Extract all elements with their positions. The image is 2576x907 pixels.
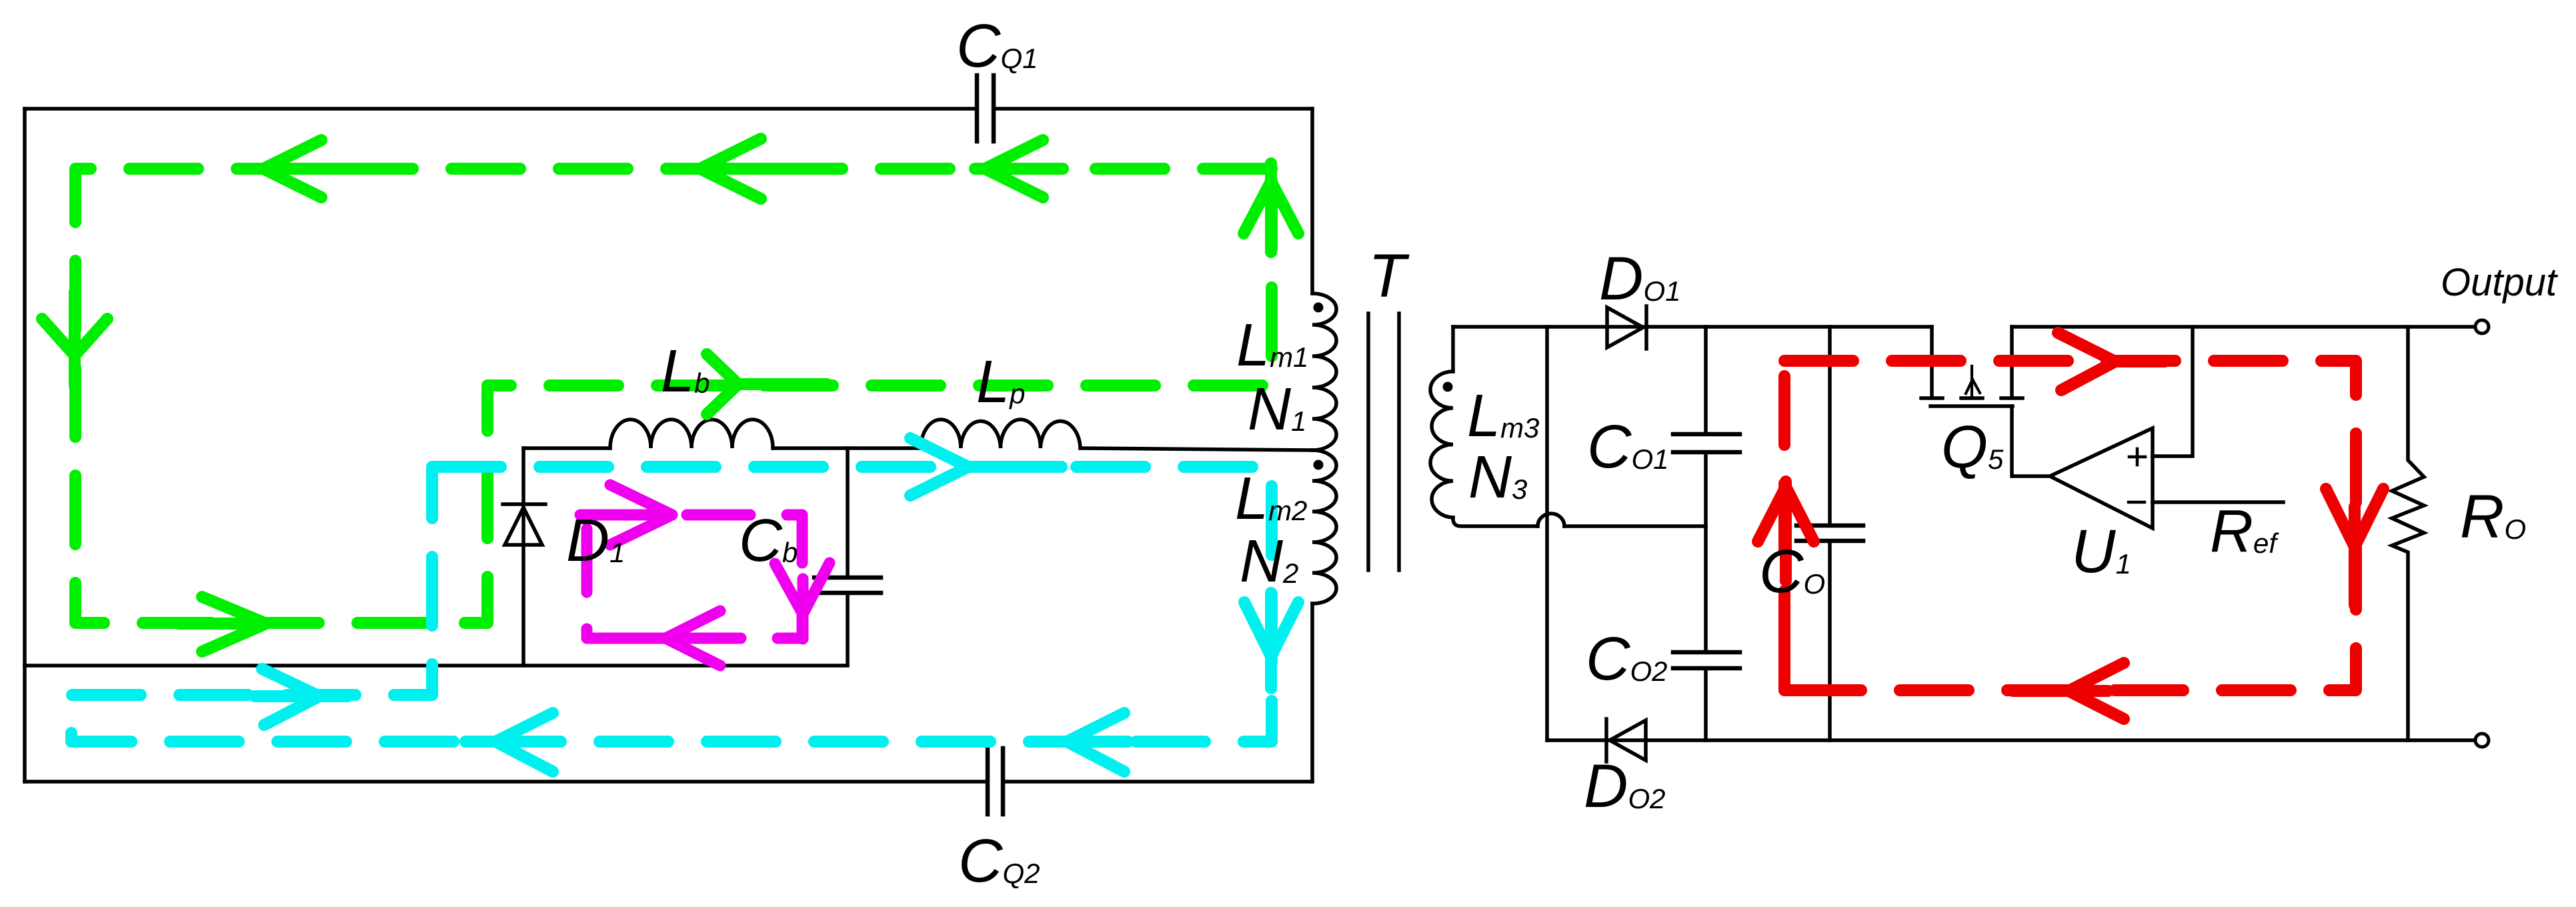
svg-text:N2: N2 [1240, 528, 1298, 595]
wire: bottom output rail [1547, 738, 2476, 742]
green arrow left on top bus (near CQ1) [975, 140, 1063, 197]
op-amp minus pin [2129, 501, 2145, 504]
polarity dot N2 [1314, 460, 1324, 470]
svg-text:N3: N3 [1468, 444, 1527, 511]
transformer T core [1368, 313, 1399, 570]
svg-text:CO: CO [1759, 538, 1825, 606]
cyan arrow left on bottom bus (right) [1037, 713, 1128, 772]
green arrow left on top bus (outer) [253, 140, 341, 197]
svg-text:Ref: Ref [2210, 498, 2279, 565]
svg-text:DO2: DO2 [1584, 752, 1665, 820]
svg-text:Q5: Q5 [1941, 414, 2004, 481]
wire: outer loop top bus (left of CQ1) [25, 107, 977, 111]
cyan arrow right on return segment [255, 669, 347, 725]
svg-text:Lm3: Lm3 [1467, 383, 1539, 449]
green arrow right on bottom segment [179, 597, 266, 652]
polarity dot N3 [1443, 382, 1453, 392]
wire: CO1 branch top [1704, 327, 1708, 434]
wire: vertical from top bus to DO2 rail [1545, 327, 1549, 740]
magenta arrow down at Cb [775, 563, 830, 639]
capacitor Cb [814, 578, 881, 593]
svg-text:RO: RO [2460, 483, 2526, 551]
wire: CO1 to CO2 midpoint branch [1704, 452, 1708, 652]
wire: lower-left return bus [25, 664, 848, 668]
svg-text:CQ1: CQ1 [956, 12, 1038, 80]
diode DO2 [1606, 719, 1646, 762]
wire: primary bottom drop [1310, 604, 1314, 782]
polarity dot N1 [1314, 303, 1324, 313]
green arrow down on left bus [42, 292, 107, 385]
wire: outer loop top bus (right of CQ1) [994, 107, 1312, 111]
inductor Lm3 N3 secondary winding [1430, 371, 1453, 518]
svg-text:Output: Output [2441, 261, 2559, 304]
wire: outer loop bottom bus (left of CQ2) [25, 780, 988, 784]
svg-text:DO1: DO1 [1599, 245, 1680, 313]
wire: CO2 to bottom rail [1704, 668, 1708, 740]
svg-text:CO2: CO2 [1586, 625, 1667, 693]
transistor Q5 body arrow [1966, 366, 1980, 397]
inductor Lm2 N2 primary winding [1312, 450, 1336, 604]
resistor RO [2392, 327, 2424, 740]
wire: Cb branch vertical lower [846, 593, 850, 664]
wire: plus input sense wire [2153, 327, 2193, 456]
magenta arrow left on bottom of D1 cell [621, 611, 720, 666]
capacitor CQ2 [988, 748, 1003, 814]
terminal: Output + [2475, 320, 2489, 333]
wire: CO branch bottom [1828, 541, 1832, 740]
wire: gate of Q5 to op-amp output [2012, 406, 2050, 476]
green arrow up at transformer [1244, 163, 1298, 252]
capacitor CO2 [1673, 652, 1740, 668]
magenta arrow right on top of D1 cell [580, 485, 672, 545]
transistor Q5 channel ticks [1921, 396, 2023, 400]
diode DO1 [1607, 306, 1646, 349]
wire: hop over vertical [1538, 514, 1564, 526]
wire: secondary top bus (Lm3 to Q5 drain) [1453, 325, 1932, 329]
red loop corner at CO bottom [1784, 662, 1795, 690]
wire: Cb branch vertical upper [846, 448, 850, 578]
wire: secondary bottom with corner [1453, 518, 1538, 526]
red arrow left on bottom segment [2013, 663, 2124, 719]
wire: between Lb and Lp [773, 446, 921, 450]
wire: red loop i4 dashed path [1784, 361, 2356, 690]
op-amp plus pin [2129, 449, 2145, 465]
green arrow left on top bus (middle) [700, 139, 781, 199]
wire: right drop from top bus to Lm1 [1310, 109, 1314, 293]
wire: cyan loop i2 dashed path [71, 467, 1272, 742]
inductor Lp [921, 419, 1080, 448]
svg-text:U1: U1 [2071, 518, 2131, 586]
svg-text:CQ2: CQ2 [958, 827, 1040, 895]
transistor Q5 source stub [2010, 327, 2014, 395]
wire: outer loop bottom bus (right of CQ2) [1003, 780, 1312, 784]
wire: CO branch top [1828, 327, 1832, 526]
red arrow down at RO [2326, 489, 2383, 605]
svg-text:Lp: Lp [976, 349, 1025, 415]
capacitor CO1 [1673, 434, 1740, 452]
svg-text:Lm2: Lm2 [1235, 466, 1307, 532]
transistor Q5 gate bar [1930, 404, 2013, 408]
wire: green loop i1 dashed path [75, 169, 1272, 623]
capacitor CQ1 [977, 75, 994, 141]
svg-text:Lb: Lb [661, 338, 710, 405]
wire: minus input to Ref [2153, 500, 2283, 504]
wire: D1 branch vertical [521, 448, 525, 664]
cyan arrow down at transformer [1244, 593, 1298, 688]
op-amp U1 [2050, 428, 2153, 528]
inductor Lm1 N1 primary winding [1312, 293, 1336, 450]
wire: secondary bottom to CO1/CO2 midpoint [1564, 524, 1706, 528]
wire: top of D1-Cb cell (left of Lb) [523, 446, 610, 450]
terminal: Output - [2475, 734, 2489, 747]
red arrow right through Q5 [2058, 333, 2165, 390]
wire: outer loop left bus [23, 109, 27, 782]
transistor Q5 drain stub [1930, 327, 1934, 395]
cyan arrow left on bottom bus (left) [465, 713, 557, 772]
svg-text:CO1: CO1 [1587, 413, 1668, 481]
wire: output top rail (Q5 source to terminal) [2012, 325, 2476, 329]
inductor Lb [610, 419, 773, 448]
diode D1 [503, 504, 545, 545]
red arrow up at CO [1758, 482, 1814, 581]
wire: Lp to transformer N1/N2 junction [1080, 448, 1312, 450]
capacitor CO [1796, 526, 1863, 541]
svg-text:N1: N1 [1248, 376, 1306, 443]
green arrow right on Lb segment [707, 354, 827, 414]
wire: magenta loop i3 dashed path [587, 515, 802, 638]
wire: secondary top-left corner drop [1451, 327, 1455, 371]
cyan arrow right at Lp [910, 438, 1062, 496]
svg-text:T: T [1368, 242, 1410, 310]
